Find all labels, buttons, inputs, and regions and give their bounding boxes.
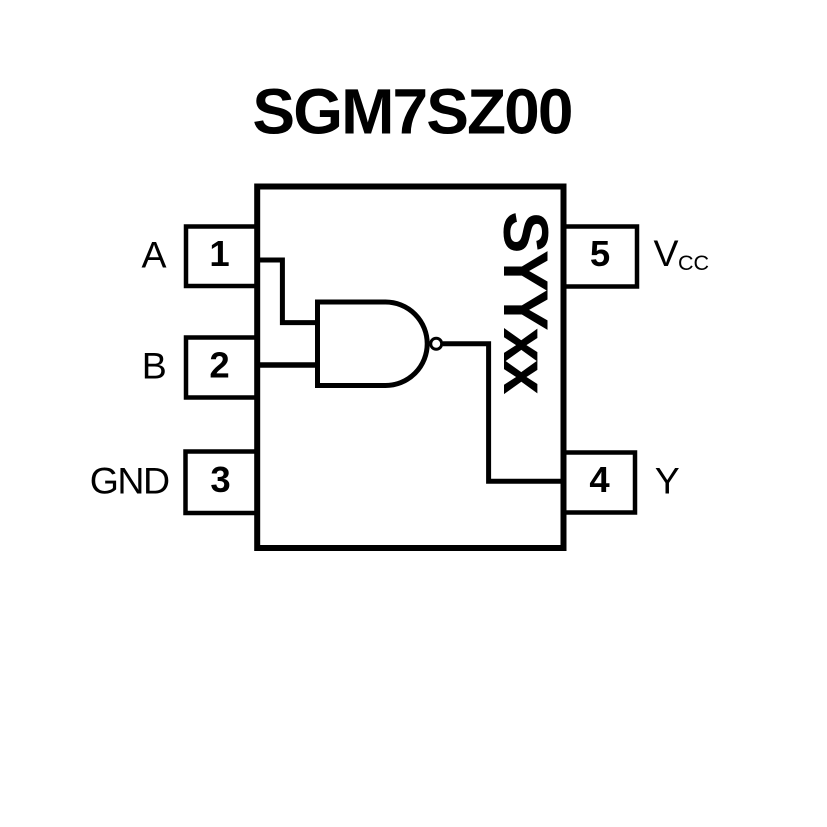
label VCC (pin 5) (654, 232, 710, 275)
pin 1 box (186, 227, 257, 287)
pin 5 box (563, 227, 637, 287)
svg-text:SGM7SZ00: SGM7SZ00 (252, 75, 571, 147)
svg-text:V: V (654, 232, 679, 274)
svg-text:CC: CC (678, 251, 709, 275)
label Y (pin 4) (655, 460, 680, 502)
label A (pin 1) (141, 234, 166, 276)
wire pin2 to NAND input B (257, 362, 318, 368)
pin 4 number (589, 459, 610, 500)
pin 4 box (563, 453, 635, 513)
svg-text:B: B (142, 345, 167, 387)
marking text SYYxx (490, 211, 560, 394)
svg-text:GND: GND (90, 460, 169, 502)
svg-text:5: 5 (590, 233, 610, 274)
pin 5 number (590, 233, 610, 274)
svg-text:SYYxx: SYYxx (490, 211, 560, 394)
wire NAND output to pin 4 (Y) (443, 344, 563, 481)
svg-text:A: A (141, 234, 166, 276)
NAND gate U1A (318, 302, 428, 386)
pin 3 number (210, 459, 230, 500)
wire pin1 to NAND input A (257, 260, 318, 323)
pin 1 number (209, 233, 229, 274)
svg-text:3: 3 (210, 459, 230, 500)
title SGM7SZ00 (252, 75, 571, 147)
svg-text:Y: Y (655, 460, 680, 502)
IC body U1 (257, 187, 563, 549)
NAND output bubble (431, 338, 442, 349)
pin 3 box (186, 452, 258, 514)
label GND (pin 3) (90, 460, 169, 502)
svg-text:2: 2 (209, 344, 229, 385)
pin 2 box (186, 338, 257, 398)
pin 2 number (209, 344, 229, 385)
label B (pin 2) (142, 345, 167, 387)
svg-text:4: 4 (589, 459, 610, 500)
svg-text:1: 1 (209, 233, 229, 274)
